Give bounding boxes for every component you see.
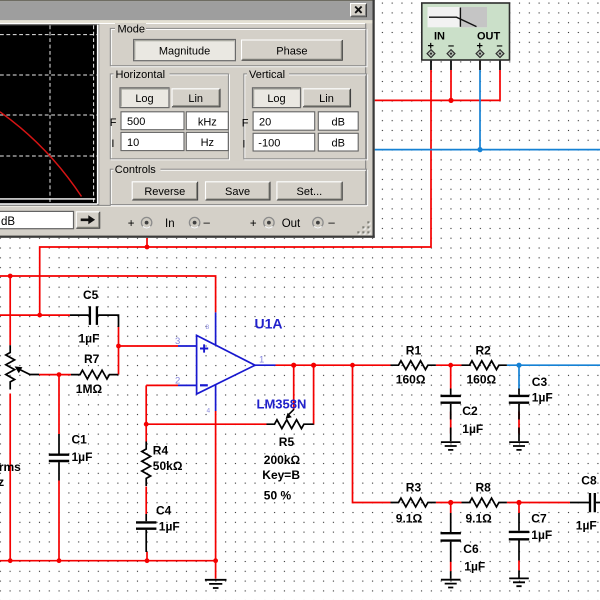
svg-text:Key=B: Key=B	[262, 468, 300, 482]
svg-text:F: F	[110, 117, 117, 129]
svg-text:1µF: 1µF	[462, 422, 483, 436]
svg-text:IN: IN	[434, 30, 445, 42]
svg-text:I: I	[242, 139, 245, 151]
svg-text:Save: Save	[225, 186, 250, 198]
svg-text:R8: R8	[476, 481, 492, 495]
svg-text:U1A: U1A	[255, 316, 283, 332]
svg-text:Reverse: Reverse	[144, 186, 185, 198]
svg-text:Horizontal: Horizontal	[116, 69, 166, 81]
svg-text:9.1Ω: 9.1Ω	[466, 512, 493, 526]
svg-text:dB: dB	[331, 117, 344, 129]
svg-text:200kΩ: 200kΩ	[264, 453, 301, 467]
svg-text:1MΩ: 1MΩ	[76, 382, 103, 396]
svg-text:Controls: Controls	[115, 164, 156, 176]
svg-text:C4: C4	[156, 504, 172, 518]
svg-text:C5: C5	[83, 288, 99, 302]
svg-text:LM358N: LM358N	[257, 397, 307, 412]
svg-text:C7: C7	[531, 512, 547, 526]
svg-text:R2: R2	[476, 344, 492, 358]
svg-text:160Ω: 160Ω	[467, 373, 497, 387]
svg-text:Set...: Set...	[297, 186, 323, 198]
svg-text:R5: R5	[279, 435, 295, 449]
svg-text:kHz: kHz	[198, 116, 217, 128]
svg-text:Vrms: Vrms	[0, 460, 21, 474]
svg-text:Hz: Hz	[0, 475, 4, 489]
svg-text:Lin: Lin	[319, 93, 334, 105]
svg-text:C3: C3	[532, 375, 548, 389]
svg-text:1µF: 1µF	[532, 391, 553, 405]
svg-text:160Ω: 160Ω	[396, 373, 426, 387]
svg-text:F: F	[242, 118, 249, 130]
svg-text:In: In	[165, 218, 175, 230]
svg-text:+: +	[128, 218, 135, 230]
svg-text:8: 8	[206, 324, 210, 331]
svg-text:500: 500	[127, 116, 145, 128]
svg-text:1µF: 1µF	[72, 450, 93, 464]
svg-text:Vertical: Vertical	[249, 69, 285, 81]
svg-text:–: –	[204, 217, 211, 229]
svg-text:3: 3	[175, 336, 180, 347]
svg-text:1: 1	[259, 355, 264, 366]
svg-text:I: I	[111, 138, 114, 150]
svg-text:-100: -100	[258, 137, 280, 149]
svg-text:Log: Log	[267, 93, 285, 105]
svg-text:Log: Log	[135, 93, 153, 105]
svg-text:Hz: Hz	[201, 137, 214, 149]
svg-text:50kΩ: 50kΩ	[153, 459, 183, 473]
svg-text:+: +	[250, 218, 257, 230]
svg-text:4: 4	[207, 408, 211, 415]
svg-text:C6: C6	[463, 542, 479, 556]
svg-text:dB: dB	[1, 216, 15, 228]
svg-text:2: 2	[175, 376, 180, 387]
svg-text:10: 10	[127, 137, 139, 149]
svg-text:C1: C1	[72, 433, 88, 447]
svg-text:20: 20	[259, 117, 271, 129]
svg-text:dB: dB	[331, 138, 344, 150]
svg-text:R1: R1	[406, 344, 422, 358]
svg-text:1µF: 1µF	[464, 559, 485, 573]
svg-text:Phase: Phase	[276, 45, 307, 57]
svg-text:1µF: 1µF	[159, 520, 180, 534]
svg-text:R4: R4	[153, 444, 169, 458]
svg-text:1µF: 1µF	[576, 519, 597, 533]
svg-text:–: –	[328, 217, 335, 229]
svg-text:Out: Out	[282, 218, 301, 230]
svg-text:Magnitude: Magnitude	[159, 45, 210, 57]
svg-text:C2: C2	[462, 404, 478, 418]
svg-text:1µF: 1µF	[531, 528, 552, 542]
svg-text:Lin: Lin	[188, 93, 203, 105]
svg-text:1µF: 1µF	[79, 331, 100, 345]
svg-text:C8: C8	[581, 474, 597, 488]
svg-text:R3: R3	[406, 481, 422, 495]
svg-text:R7: R7	[84, 352, 100, 366]
svg-text:9.1Ω: 9.1Ω	[396, 512, 423, 526]
svg-text:Mode: Mode	[118, 23, 146, 35]
svg-text:50 %: 50 %	[264, 489, 292, 503]
